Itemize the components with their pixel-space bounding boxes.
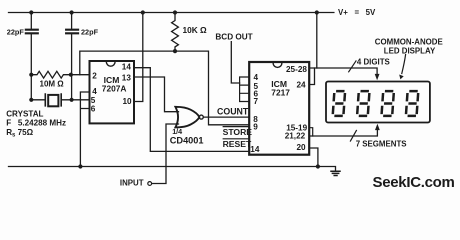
svg-text:7207A: 7207A (102, 83, 127, 93)
svg-text:SeekIC.com: SeekIC.com (373, 174, 455, 191)
svg-text:LED DISPLAY: LED DISPLAY (384, 46, 436, 55)
svg-text:22pF: 22pF (81, 27, 99, 36)
svg-text:COUNT: COUNT (217, 106, 249, 116)
svg-text:STORE: STORE (223, 127, 253, 137)
svg-text:24: 24 (297, 80, 307, 89)
svg-text:10: 10 (123, 97, 133, 106)
svg-text:BCD OUT: BCD OUT (215, 32, 252, 41)
svg-text:Rs 75Ω: Rs 75Ω (6, 128, 33, 138)
svg-text:14: 14 (122, 63, 132, 72)
svg-text:20: 20 (297, 143, 307, 152)
svg-text:14: 14 (250, 145, 260, 154)
svg-text:V+ = 5V: V+ = 5V (338, 8, 376, 17)
svg-text:INPUT: INPUT (120, 179, 144, 188)
svg-text:2: 2 (92, 71, 97, 80)
svg-text:CD4001: CD4001 (170, 136, 204, 146)
svg-text:13: 13 (122, 73, 132, 82)
svg-text:7217: 7217 (271, 88, 290, 98)
svg-text:21,22: 21,22 (285, 132, 306, 141)
svg-text:10K Ω: 10K Ω (183, 25, 208, 35)
svg-text:6: 6 (91, 105, 96, 114)
svg-text:COMMON-ANODE: COMMON-ANODE (375, 38, 443, 47)
svg-text:4 DIGITS: 4 DIGITS (357, 57, 390, 66)
svg-text:7 SEGMENTS: 7 SEGMENTS (356, 139, 407, 148)
svg-text:10M Ω: 10M Ω (40, 79, 65, 88)
svg-text:9: 9 (253, 122, 258, 131)
svg-text:22pF: 22pF (7, 27, 25, 36)
svg-text:7: 7 (254, 97, 259, 106)
svg-text:4: 4 (254, 73, 259, 82)
svg-text:F 5.24288 MHz: F 5.24288 MHz (6, 119, 66, 128)
svg-text:4: 4 (92, 87, 97, 96)
svg-text:CRYSTAL: CRYSTAL (6, 110, 43, 119)
svg-text:25-28: 25-28 (286, 65, 307, 74)
svg-text:RESET: RESET (223, 139, 252, 149)
